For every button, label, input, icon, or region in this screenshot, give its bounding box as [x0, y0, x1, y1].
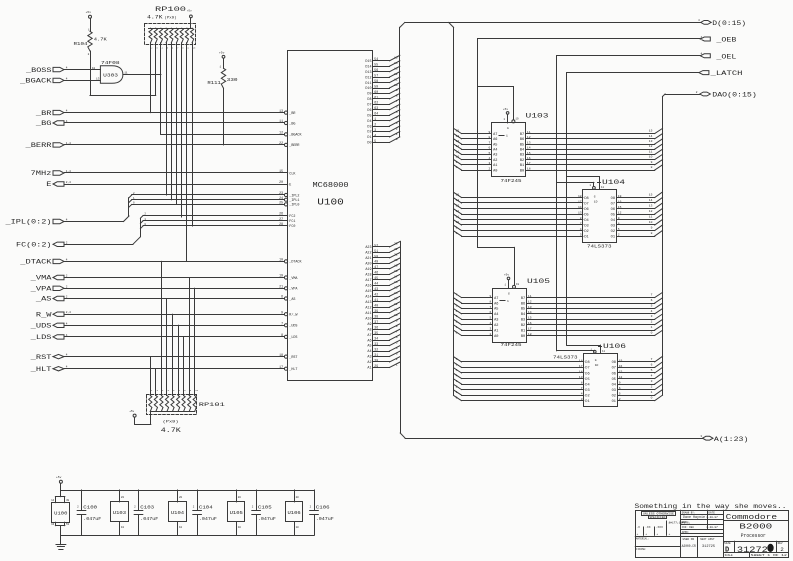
wire D(0:15) top run: [405, 22, 701, 24]
wire R111 to _BERR net: [223, 88, 225, 145]
svg-text:8: 8: [396, 95, 398, 98]
svg-text:D13: D13: [365, 71, 371, 75]
svg-text:U303: U303: [103, 73, 118, 79]
svg-text:O3: O3: [612, 389, 616, 393]
svg-text:4-28-87: 4-28-87: [706, 516, 718, 519]
svg-text:12: 12: [649, 145, 653, 148]
svg-text:A6: A6: [367, 339, 371, 343]
svg-text:10: 10: [195, 389, 198, 392]
wire RP101 pull-up columns: [151, 261, 195, 394]
svg-text:G: G: [507, 127, 509, 130]
bus A(1:23) vertical from U100: [400, 241, 405, 438]
svg-text:ENG:: ENG:: [682, 521, 688, 524]
wire _HLT net: [65, 368, 285, 370]
wire DAO top run: [665, 94, 700, 96]
svg-text:O5: O5: [611, 213, 615, 217]
wire _BGACK net from U303 column: [161, 134, 285, 136]
capacitor C103 .047uF: [134, 490, 158, 535]
svg-text:A1: A1: [493, 164, 497, 168]
svg-text:D2: D2: [584, 230, 588, 234]
svg-text:5: 5: [456, 369, 458, 372]
svg-text:_OEL: _OEL: [715, 53, 737, 60]
svg-text:19: 19: [515, 118, 519, 121]
svg-text:10: 10: [296, 526, 300, 529]
svg-text:U105: U105: [527, 278, 550, 285]
svg-text:A16: A16: [365, 285, 371, 289]
svg-text:4-28-87: 4-28-87: [706, 526, 718, 529]
svg-text:O7: O7: [612, 367, 616, 371]
title block part number row: [724, 541, 789, 557]
svg-text:5: 5: [396, 111, 398, 114]
svg-text:2,4: 2,4: [66, 311, 71, 314]
svg-text:+: +: [656, 533, 658, 536]
U103 enable pin 19 bubble: [478, 87, 519, 123]
svg-text:13: 13: [394, 68, 398, 71]
svg-text:8: 8: [456, 232, 458, 235]
svg-text:15: 15: [649, 130, 653, 133]
svg-text:11: 11: [124, 71, 128, 74]
svg-text:D7: D7: [585, 367, 589, 371]
svg-text:10: 10: [456, 221, 460, 224]
svg-text:1: 1: [396, 133, 398, 136]
IC U103 power: [111, 490, 129, 535]
svg-text:D8: D8: [584, 197, 588, 201]
connector _VPA: [29, 285, 67, 292]
svg-text:D4: D4: [584, 219, 588, 223]
svg-text:_HLT: _HLT: [288, 368, 297, 372]
svg-text:4: 4: [66, 258, 68, 261]
power +5V for RP101: [129, 410, 151, 425]
svg-text:9: 9: [188, 47, 190, 50]
svg-text:_BR: _BR: [35, 110, 52, 117]
svg-text:_BGACK: _BGACK: [288, 134, 302, 138]
svg-text:A19: A19: [365, 268, 371, 272]
svg-text:1: 1: [506, 135, 508, 138]
svg-text:D10: D10: [365, 87, 371, 91]
connector _OEL: [700, 53, 737, 61]
svg-text:9: 9: [651, 161, 653, 164]
svg-text:SIZE: SIZE: [724, 542, 731, 545]
svg-text:1: 1: [507, 300, 509, 303]
svg-text:D1: D1: [367, 136, 371, 140]
svg-text:2: 2: [456, 386, 458, 389]
svg-text:2: 2: [456, 321, 458, 324]
svg-text:O8: O8: [611, 197, 615, 201]
wire _DTACK net: [65, 261, 285, 263]
svg-text:5: 5: [396, 341, 398, 344]
svg-text:_RST: _RST: [29, 354, 51, 361]
svg-text:7: 7: [488, 141, 490, 144]
svg-text:13: 13: [456, 140, 460, 143]
connector _LDS: [29, 334, 67, 341]
svg-text:10: 10: [279, 258, 283, 262]
svg-text:7: 7: [281, 322, 283, 326]
svg-text:5: 5: [168, 389, 170, 392]
svg-text:15: 15: [394, 287, 398, 290]
U100 left pins: [279, 109, 302, 372]
capacitor C104 .047uF: [193, 490, 217, 535]
svg-text:4.7K: 4.7K: [161, 427, 181, 434]
svg-text:2: 2: [396, 358, 398, 361]
IC U105 power: [228, 490, 245, 535]
svg-text:B4: B4: [520, 149, 524, 153]
svg-text:1: 1: [504, 284, 506, 287]
svg-text:FINISH:: FINISH:: [636, 548, 647, 551]
wire A(1:23) bottom run: [405, 438, 702, 440]
svg-text:9: 9: [190, 389, 192, 392]
svg-text:_LDS: _LDS: [288, 336, 297, 340]
power +5V for R111: [219, 51, 225, 68]
svg-text:2: 2: [77, 506, 79, 509]
svg-text:A10: A10: [365, 317, 371, 321]
svg-text:B0: B0: [521, 335, 525, 339]
svg-text:U103: U103: [526, 113, 549, 120]
svg-text:DAO(0:15): DAO(0:15): [712, 92, 757, 99]
wire _IPL bus fan: [65, 192, 285, 221]
svg-text:9: 9: [651, 227, 653, 230]
svg-text:_IPL0: _IPL0: [288, 204, 299, 208]
svg-text:4: 4: [66, 77, 68, 80]
wire U105 A input lines: [454, 292, 493, 335]
svg-text:B2000: B2000: [739, 524, 772, 532]
svg-text:11: 11: [602, 350, 606, 353]
svg-text:A4: A4: [493, 149, 497, 153]
wire _BGACK to U303 pin 13: [65, 80, 101, 82]
svg-text:8: 8: [396, 325, 398, 328]
wire U303 output to RP100 column 3: [123, 74, 161, 76]
svg-text:A9: A9: [367, 323, 371, 327]
svg-text:57: 57: [374, 74, 378, 78]
svg-text:U100: U100: [54, 511, 67, 517]
svg-text:D(0:15): D(0:15): [712, 20, 746, 27]
svg-text:10: 10: [649, 156, 653, 159]
svg-text:9: 9: [456, 227, 458, 230]
svg-text:23: 23: [394, 243, 398, 246]
svg-text:32: 32: [374, 347, 378, 351]
wire _BOSS to U303 pin 10: [65, 69, 101, 71]
wire U104 Q output lines to DAO bus: [617, 192, 663, 237]
svg-text:Dave Haynie: Dave Haynie: [683, 515, 705, 519]
svg-text:8: 8: [182, 47, 184, 50]
svg-text:5: 5: [651, 304, 653, 307]
svg-text:16: 16: [394, 281, 398, 284]
svg-text:B1: B1: [520, 164, 524, 168]
wire _OEL to U106 pin 1 bubble: [557, 348, 597, 353]
svg-text:B3: B3: [520, 154, 524, 158]
svg-text:D0: D0: [367, 142, 371, 146]
svg-text:RP101: RP101: [199, 402, 225, 408]
svg-text:E: E: [289, 183, 291, 187]
svg-text:D11: D11: [365, 82, 371, 86]
svg-text:20: 20: [279, 180, 283, 184]
svg-text:2: 2: [252, 506, 254, 509]
connector R_W: [36, 311, 71, 318]
svg-text:8: 8: [651, 166, 653, 169]
svg-text:A13: A13: [365, 301, 371, 305]
svg-text:6: 6: [396, 106, 398, 109]
svg-text:A1: A1: [367, 367, 371, 371]
connector _IPL(0:2) input bus: [4, 219, 68, 226]
svg-text:R_W: R_W: [36, 311, 52, 318]
svg-text:13: 13: [649, 205, 653, 208]
svg-text:C100: C100: [83, 504, 97, 510]
svg-text:14: 14: [649, 199, 653, 202]
svg-text:2: 2: [134, 506, 136, 509]
title block Commodore: [724, 514, 789, 542]
svg-text:1: 1: [220, 66, 222, 69]
svg-text:4: 4: [162, 389, 164, 392]
svg-text:A14: A14: [365, 295, 371, 299]
svg-text:A21: A21: [365, 257, 371, 261]
svg-text:21: 21: [394, 254, 398, 257]
svg-text:15: 15: [394, 57, 398, 60]
svg-text:_OEB: _OEB: [715, 37, 737, 44]
title block left column: [635, 512, 690, 551]
svg-text:B7: B7: [520, 133, 524, 137]
svg-text:38: 38: [374, 315, 378, 319]
IC U103 74F245: [488, 113, 548, 184]
svg-text:11: 11: [394, 78, 398, 81]
svg-text:7: 7: [396, 100, 398, 103]
svg-text:A5: A5: [367, 345, 371, 349]
svg-text:D12: D12: [365, 76, 371, 80]
svg-text:_UDS: _UDS: [29, 323, 51, 330]
svg-text:4: 4: [651, 310, 653, 313]
svg-text:_IPL1: _IPL1: [288, 199, 299, 203]
svg-text:22: 22: [279, 141, 283, 145]
svg-text:D4: D4: [585, 383, 589, 387]
wire U105 B output lines to DAO bus: [527, 292, 663, 335]
svg-text:4: 4: [396, 347, 398, 350]
connector _AS: [35, 296, 68, 303]
svg-text:U105: U105: [230, 510, 243, 516]
svg-text:14: 14: [456, 135, 460, 138]
wire LATCH to U106 pin 11: [567, 345, 606, 353]
wire _BERR net: [65, 144, 285, 146]
wire _VPA net: [65, 288, 285, 290]
svg-text:3: 3: [456, 315, 458, 318]
svg-text:FC(0:2): FC(0:2): [16, 242, 52, 249]
svg-text:_IPL(0:2): _IPL(0:2): [4, 219, 51, 226]
bus DAO vertical: [663, 94, 666, 395]
svg-text:C103: C103: [140, 504, 154, 510]
wire +5V rail: [61, 490, 314, 492]
svg-text:4: 4: [456, 375, 458, 378]
svg-text:C105: C105: [258, 504, 272, 510]
svg-text:6: 6: [651, 363, 653, 366]
svg-text:B6: B6: [521, 302, 525, 306]
svg-text:B7: B7: [521, 297, 525, 301]
svg-text:8: 8: [281, 333, 283, 337]
svg-text:O3: O3: [611, 224, 615, 228]
svg-text:2: 2: [88, 53, 90, 56]
svg-text:14: 14: [394, 62, 398, 65]
svg-text:U106: U106: [603, 343, 626, 350]
svg-text:330: 330: [227, 77, 238, 83]
svg-text:SCALE: SCALE: [725, 554, 733, 557]
svg-text:O7: O7: [611, 202, 615, 206]
svg-text:11: 11: [456, 216, 460, 219]
svg-text:1: 1: [651, 326, 653, 329]
connector DAO(0:15): [696, 91, 757, 99]
svg-text:10: 10: [456, 156, 460, 159]
svg-text:A3: A3: [494, 319, 498, 323]
svg-text:_VMA: _VMA: [29, 275, 51, 282]
U100 address pins A23-A1: [365, 241, 400, 370]
wire U106 Q output lines to DAO bus: [618, 356, 663, 400]
svg-text:2: 2: [66, 241, 68, 244]
svg-text:O2: O2: [612, 394, 616, 398]
svg-text:74LS373: 74LS373: [553, 355, 578, 361]
svg-text:REV: REV: [778, 542, 783, 545]
svg-text:A4: A4: [367, 350, 371, 354]
wire E net: [65, 184, 288, 186]
title block drawn-by rows: [681, 510, 724, 536]
svg-text:D15: D15: [365, 60, 371, 64]
svg-text:11: 11: [649, 216, 653, 219]
svg-text:0: 0: [651, 397, 653, 400]
connector E: [46, 181, 71, 188]
wire U104 D input lines: [454, 192, 583, 236]
svg-text:B5: B5: [520, 143, 524, 147]
svg-text:A7: A7: [494, 297, 498, 301]
svg-text:.047uF: .047uF: [316, 516, 334, 522]
svg-text:+: +: [669, 533, 671, 536]
svg-text:O6: O6: [611, 208, 615, 212]
svg-text:36: 36: [374, 326, 378, 330]
svg-text:D14: D14: [365, 65, 371, 69]
svg-text:O1: O1: [612, 400, 616, 404]
svg-text:312725: 312725: [702, 544, 715, 548]
svg-text:A7: A7: [493, 133, 497, 137]
svg-text:(Px9): (Px9): [165, 16, 177, 21]
svg-text:13: 13: [527, 141, 531, 144]
svg-text:18: 18: [527, 167, 531, 170]
svg-text:13: 13: [96, 78, 100, 81]
svg-text:4: 4: [456, 310, 458, 313]
svg-text:A0: A0: [493, 169, 497, 173]
svg-text:O6: O6: [612, 372, 616, 376]
connector _BGACK input: [19, 77, 68, 84]
svg-text:A15: A15: [365, 290, 371, 294]
bus D(0:15) vertical from U100: [400, 22, 405, 137]
svg-text:2: 2: [151, 389, 153, 392]
svg-text:2: 2: [651, 321, 653, 324]
svg-text:+5v: +5v: [504, 273, 509, 276]
resistor R104 4.7K: [74, 29, 108, 57]
resistor pack RP100 4.7K Px9: [145, 6, 197, 50]
svg-text:A5: A5: [493, 143, 497, 147]
svg-text:12: 12: [618, 211, 622, 214]
svg-text:D4: D4: [367, 120, 371, 124]
connector _BERR: [24, 142, 71, 149]
svg-text:A1: A1: [494, 329, 498, 333]
svg-text:11: 11: [649, 150, 653, 153]
svg-text:_RST: _RST: [288, 356, 297, 360]
svg-text:10: 10: [179, 526, 183, 529]
svg-text:D3: D3: [585, 389, 589, 393]
svg-text:0: 0: [456, 397, 458, 400]
svg-text:B2: B2: [521, 324, 525, 328]
ground: [56, 535, 66, 549]
svg-text:A3: A3: [493, 154, 497, 158]
svg-text:12: 12: [528, 300, 532, 303]
svg-text:22: 22: [394, 248, 398, 251]
svg-text:O8: O8: [612, 361, 616, 365]
svg-text:2: 2: [696, 91, 698, 94]
wire _OEL run: [557, 56, 701, 351]
svg-text:_HLT: _HLT: [29, 366, 51, 373]
svg-text:D6: D6: [367, 109, 371, 113]
svg-text:11: 11: [456, 150, 460, 153]
wire FC bus fan: [65, 213, 288, 245]
connector _LATCH: [699, 70, 743, 77]
wire _OEB run: [478, 39, 701, 248]
svg-text:7MHz: 7MHz: [31, 170, 52, 177]
svg-text:D7: D7: [584, 202, 588, 206]
svg-text:A4: A4: [494, 313, 498, 317]
svg-text:A3: A3: [367, 356, 371, 360]
svg-text:B3: B3: [521, 319, 525, 323]
svg-text:2: 2: [396, 127, 398, 130]
connector _BR: [35, 110, 68, 117]
svg-text:4: 4: [396, 116, 398, 119]
svg-text:(Px9): (Px9): [163, 419, 179, 424]
svg-text:3: 3: [156, 47, 158, 50]
connector 7MHz: [31, 170, 72, 177]
svg-text:SPECIFIED: SPECIFIED: [649, 516, 666, 519]
svg-text:14: 14: [456, 199, 460, 202]
svg-text:Processor: Processor: [741, 533, 766, 539]
svg-text:16: 16: [51, 523, 55, 526]
svg-text:5: 5: [456, 304, 458, 307]
svg-text:2: 2: [374, 123, 376, 127]
svg-text:19: 19: [394, 265, 398, 268]
svg-text:28: 28: [279, 222, 283, 226]
svg-text:A20: A20: [365, 263, 371, 267]
svg-text:1: 1: [651, 391, 653, 394]
svg-text:14: 14: [649, 135, 653, 138]
svg-text:15: 15: [456, 194, 460, 197]
svg-text:O4: O4: [611, 219, 615, 223]
svg-text:2: 2: [193, 506, 195, 509]
svg-text:2: 2: [780, 546, 783, 553]
IC U105 74F245: [489, 278, 550, 348]
svg-text:74F245: 74F245: [501, 342, 522, 348]
wire _RST net: [65, 356, 285, 358]
svg-text:C104: C104: [199, 504, 213, 510]
svg-text:_AS: _AS: [288, 298, 295, 302]
wire _OEL to U104 pin 1 bubble: [557, 182, 596, 189]
svg-text:D9: D9: [367, 93, 371, 97]
capacitor C105 .047uF: [252, 490, 276, 535]
svg-text:6: 6: [396, 336, 398, 339]
svg-text:4: 4: [651, 375, 653, 378]
svg-text:D8: D8: [367, 98, 371, 102]
svg-text:D3: D3: [367, 125, 371, 129]
svg-text:O5: O5: [612, 378, 616, 382]
svg-text:20: 20: [121, 496, 125, 499]
resistor pack RP101 4.7K Px9: [147, 389, 225, 434]
wire _AS net: [65, 298, 285, 300]
svg-text:8: 8: [651, 232, 653, 235]
svg-text:9: 9: [396, 89, 398, 92]
svg-text:Something in the way she moves: Something in the way she moves..: [635, 503, 787, 510]
IC U100 MC68000 body: [288, 51, 373, 381]
svg-text:_DTACK: _DTACK: [19, 259, 52, 266]
wire GND rail: [61, 535, 314, 537]
wire U103 A input lines: [454, 128, 492, 170]
